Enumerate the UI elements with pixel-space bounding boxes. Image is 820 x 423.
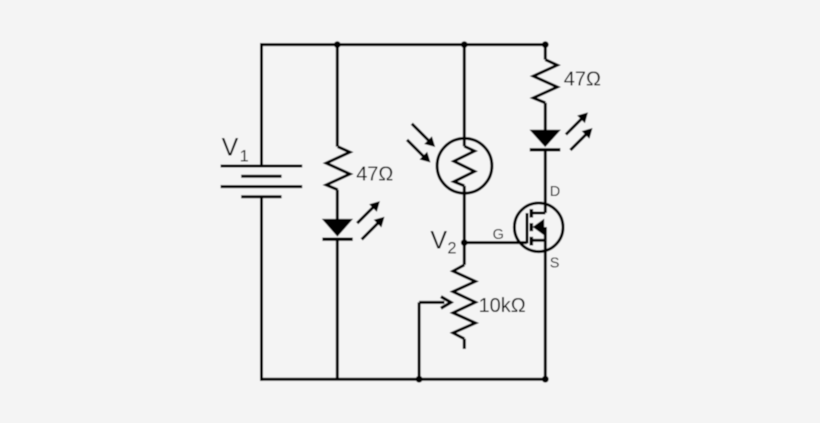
right branch wire top [544,45,547,60]
wire top rail [260,43,547,46]
node top rail / LDR branch [461,41,468,48]
wire pot bottom stub [463,339,466,349]
potentiometer 10k zigzag [453,265,475,339]
wire LDR to V2 node [463,186,466,243]
MOSFET drain horizontal [531,212,545,215]
MOSFET source horizontal [531,239,545,242]
battery V1 [221,166,303,197]
svg-text:G: G [493,227,504,243]
wire battery branch top [260,43,263,166]
node top rail / right branch [542,41,549,48]
wire pot top stub [463,243,466,265]
LDR light arrows [407,124,435,163]
MOSFET substrate connector [544,227,547,240]
LDR zigzag [454,146,475,186]
LED D2 [530,130,561,150]
svg-text:V: V [222,134,239,162]
node V2 [461,239,468,246]
wire R1 to LED1 [336,190,339,221]
wire LED branch top [336,45,339,147]
wire LED1 to bottom [336,239,339,379]
svg-text:10kΩ: 10kΩ [479,295,526,317]
wire gate [464,241,527,244]
pot wiper arrowhead [441,297,451,309]
svg-text:S: S [550,256,560,272]
svg-text:47Ω: 47Ω [356,163,393,185]
node bottom rail / source [542,376,549,383]
wire battery branch bottom [260,197,263,381]
wire R2 to LED2 [544,103,547,132]
LED D1 [322,219,353,239]
pot wiper arrow shaft [419,301,444,304]
node top rail / LED branch [334,41,341,48]
wire bottom rail [260,378,547,381]
junction dots [334,41,549,382]
svg-text:V: V [430,227,447,255]
MOSFET Q1 circle [514,203,563,252]
svg-text:47Ω: 47Ω [564,69,601,91]
node bottom rail / wiper [416,376,423,383]
MOSFET gate bar [526,213,529,244]
LED1 light arrows [357,201,384,239]
wire LED2 to MOSFET drain [544,150,547,213]
LDR circle [437,138,492,193]
resistor R1 47ohm [326,147,350,190]
LDR branch wire top [463,45,466,147]
MOSFET substrate arrow [533,219,545,236]
LED2 light arrows [566,112,593,150]
svg-text:2: 2 [447,239,456,257]
pot wiper wire down [418,302,421,379]
resistor R2 47ohm [533,60,557,103]
svg-text:1: 1 [240,148,249,166]
wire source to bottom [544,240,547,379]
svg-text:D: D [550,184,560,200]
MOSFET channel bars [529,209,533,245]
